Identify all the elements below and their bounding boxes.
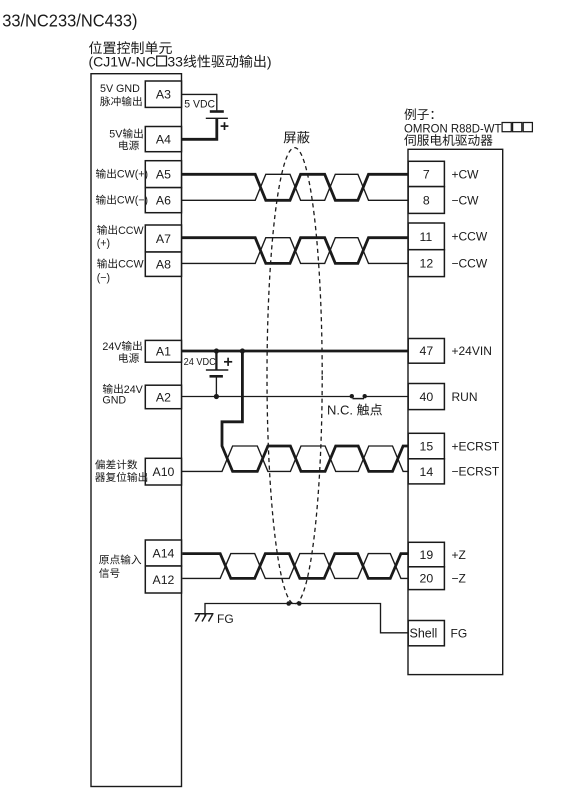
svg-text:Shell: Shell xyxy=(410,627,438,641)
svg-text:CCW: CCW xyxy=(118,259,144,271)
svg-text:GND: GND xyxy=(102,394,126,406)
svg-text:A4: A4 xyxy=(156,133,171,147)
svg-text:14: 14 xyxy=(420,465,434,479)
svg-text:20: 20 xyxy=(420,572,434,586)
svg-text:5 VDC: 5 VDC xyxy=(184,98,215,110)
svg-text:CW(−): CW(−) xyxy=(117,195,148,207)
svg-text:+CW: +CW xyxy=(452,168,480,182)
svg-text:5V GND: 5V GND xyxy=(100,83,140,95)
svg-text:+ECRST: +ECRST xyxy=(452,439,500,453)
svg-text:N.C.: N.C. xyxy=(327,403,353,418)
svg-text:33: 33 xyxy=(167,54,183,70)
svg-text:+Z: +Z xyxy=(452,548,466,562)
svg-text:): ) xyxy=(267,54,272,70)
svg-text:A3: A3 xyxy=(156,88,171,102)
svg-text:A8: A8 xyxy=(156,258,171,272)
svg-text:A7: A7 xyxy=(156,232,171,246)
svg-text:(+): (+) xyxy=(97,237,110,249)
svg-text:A2: A2 xyxy=(156,390,171,404)
svg-text:FG: FG xyxy=(451,626,468,640)
svg-text:47: 47 xyxy=(420,344,434,358)
svg-text:CCW: CCW xyxy=(118,225,144,237)
svg-text:FG: FG xyxy=(217,612,234,626)
svg-text:−ECRST: −ECRST xyxy=(452,465,500,479)
svg-text:12: 12 xyxy=(420,257,434,271)
svg-text:−CW: −CW xyxy=(452,194,480,208)
svg-text:A12: A12 xyxy=(153,573,175,587)
svg-text:15: 15 xyxy=(420,439,434,453)
svg-text:24V: 24V xyxy=(102,341,122,353)
svg-text:(CJ1W-NC: (CJ1W-NC xyxy=(89,54,156,70)
svg-text:40: 40 xyxy=(420,390,434,404)
svg-text:11: 11 xyxy=(420,230,433,244)
svg-text:33/NC233/NC433): 33/NC233/NC433) xyxy=(2,10,137,30)
svg-text:5V: 5V xyxy=(109,129,123,141)
svg-text:7: 7 xyxy=(423,167,430,181)
svg-text:A6: A6 xyxy=(156,194,171,208)
svg-text:8: 8 xyxy=(423,193,430,207)
svg-text:RUN: RUN xyxy=(452,390,478,404)
svg-text:A14: A14 xyxy=(153,546,175,560)
svg-text:A10: A10 xyxy=(153,465,175,479)
svg-text:A1: A1 xyxy=(156,345,171,359)
svg-text:OMRON R88D-WT: OMRON R88D-WT xyxy=(404,121,502,135)
svg-text:24 VDC: 24 VDC xyxy=(184,357,216,368)
svg-text:+24VIN: +24VIN xyxy=(452,344,492,358)
svg-text:−CCW: −CCW xyxy=(452,257,488,271)
svg-text:A5: A5 xyxy=(156,168,171,182)
svg-text:24V: 24V xyxy=(124,384,144,396)
svg-text:(−): (−) xyxy=(97,272,110,284)
svg-text:19: 19 xyxy=(420,548,434,562)
svg-text:−Z: −Z xyxy=(452,572,466,586)
svg-text:CW(+): CW(+) xyxy=(117,169,148,181)
svg-text:+CCW: +CCW xyxy=(452,230,488,244)
